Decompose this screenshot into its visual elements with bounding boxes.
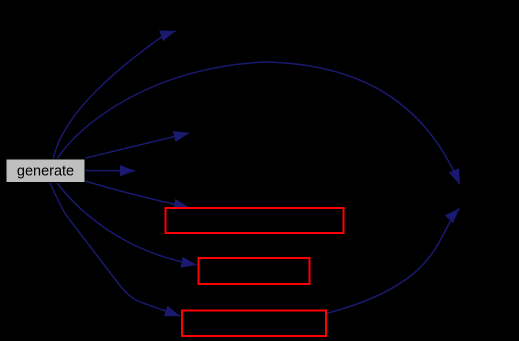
edge generate->box1 [85, 181, 189, 208]
edge generate->node (mid upper arrow) [85, 133, 189, 158]
node box2 (red, truncated) [199, 258, 310, 284]
node generate (current function) [6, 159, 85, 183]
edge generate->box3 [50, 183, 180, 316]
svg-text:generate: generate [17, 164, 74, 180]
edge generate->node (short horizontal arrow) [85, 170, 135, 172]
edge generate->top node (arrow to upper area) [53, 31, 176, 159]
node box1 (red, truncated) [166, 208, 344, 233]
node box3 (red, truncated) [182, 311, 326, 337]
edge box3->right node (bottom right arc) [326, 208, 459, 313]
edge generate->box2 [57, 183, 197, 265]
edge generate->right node (long top arc) [57, 62, 460, 184]
